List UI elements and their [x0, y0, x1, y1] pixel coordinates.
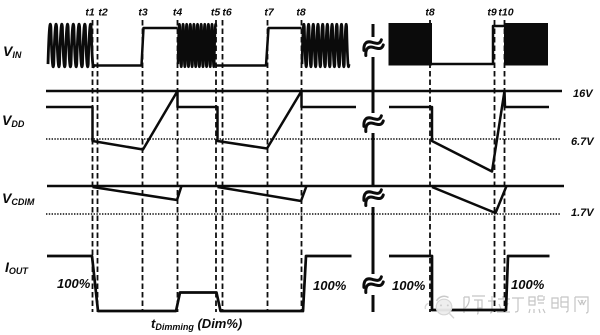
VDD waveform left section [46, 91, 356, 150]
watermark text 阿拉丁照明网 (approximated strokes) [464, 296, 588, 314]
1.7V dotted reference line [46, 213, 560, 215]
watermark char 照 [529, 296, 545, 313]
VCDIM decline segment 1 [93, 186, 182, 200]
watermark char 明 [552, 297, 568, 312]
watermark char 拉 [488, 296, 510, 313]
VCDIM decline segment 3 [432, 186, 507, 213]
watermark char 阿 [464, 296, 485, 314]
VDD waveform right section [389, 91, 549, 172]
VIN low segment t5-t7 and pulse t7-t8 [216, 28, 302, 66]
svg-text:t8: t8 [425, 7, 434, 19]
VIN waveform oscillation burst 3 [302, 24, 349, 67]
dashed timing line t7 [267, 20, 269, 312]
dashed timing line t6 [222, 20, 224, 312]
16V reference line [46, 90, 562, 92]
dashed timing line t8 second [429, 20, 431, 312]
svg-text:t4: t4 [173, 7, 182, 19]
break squiggle VCDIM row [362, 187, 385, 205]
6.7V dotted reference line [46, 138, 560, 140]
break squiggle VIN row [362, 37, 385, 292]
svg-text:100%: 100% [313, 278, 347, 293]
svg-text:t10: t10 [498, 7, 513, 19]
dashed timing line t1 [93, 20, 505, 312]
dashed timing line t9 [494, 20, 496, 312]
svg-text:16V: 16V [573, 88, 594, 100]
watermark char 丁 [512, 298, 524, 312]
dashed timing line t3 [142, 20, 144, 312]
dashed timing line t8 [301, 20, 303, 312]
svg-text:1.7V: 1.7V [571, 207, 595, 219]
VIN waveform oscillation burst 2 [178, 24, 216, 67]
dashed timing line t4 [177, 20, 179, 312]
svg-text:t8: t8 [296, 7, 305, 19]
VCDIM top reference line [47, 185, 564, 187]
IOUT waveform right section [389, 256, 550, 310]
svg-text:t6: t6 [222, 7, 231, 19]
dashed timing line t2 [97, 20, 99, 312]
VIN solid burst block 2 [504, 23, 548, 66]
VIN low segment after second t8 with rise at t9 [432, 26, 504, 64]
IOUT waveform left section [47, 256, 352, 311]
svg-text:t7: t7 [264, 7, 274, 19]
time axis break line [372, 24, 375, 312]
VCDIM decline segment 2 [218, 186, 307, 201]
svg-text:t5: t5 [211, 7, 220, 19]
svg-text:t3: t3 [138, 7, 147, 19]
watermark char 网 [575, 297, 588, 313]
break squiggle IOUT row [362, 274, 385, 292]
svg-text:100%: 100% [392, 278, 426, 293]
break squiggle VDD row [362, 113, 385, 131]
watermark logo lamp icon [425, 296, 454, 318]
VIN low segment t1-t3 and pulse t3-t4 [94, 28, 178, 66]
svg-text:t2: t2 [98, 7, 107, 19]
dashed timing line t10 [504, 20, 506, 312]
VIN waveform oscillation burst 1 [48, 24, 94, 67]
dashed timing line t5 [215, 20, 217, 312]
svg-text:t9: t9 [487, 7, 496, 19]
svg-text:100%: 100% [57, 276, 91, 291]
svg-text:100%: 100% [511, 277, 545, 292]
VIN solid burst block 1 [389, 23, 433, 66]
svg-text:t1: t1 [85, 7, 94, 19]
svg-text:6.7V: 6.7V [571, 136, 595, 148]
